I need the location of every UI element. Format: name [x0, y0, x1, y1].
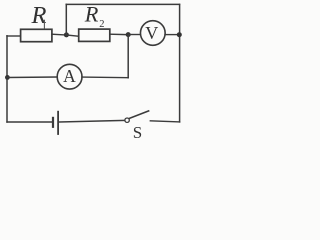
svg-text:2: 2 — [99, 19, 104, 30]
node left (ammeter branch) — [5, 75, 10, 80]
wire junction to R2 — [66, 35, 78, 36]
svg-text:R: R — [84, 2, 99, 27]
wire left node to ammeter — [7, 76, 57, 79]
battery negative plate (short) — [52, 118, 54, 127]
node B (R2 - voltmeter) — [126, 32, 131, 37]
wire bottom left to battery — [7, 121, 52, 123]
resistor R2 — [79, 29, 110, 41]
switch pivot — [125, 118, 129, 122]
wire switch to right — [150, 121, 179, 122]
wire ammeter to corner — [82, 76, 128, 79]
wire junction up to top — [65, 4, 67, 35]
wire top horizontal — [66, 3, 179, 5]
wire left to R1 — [7, 35, 21, 37]
wire corner up to node B — [127, 36, 129, 78]
svg-text:S: S — [133, 123, 142, 142]
battery positive plate (long) — [57, 112, 59, 134]
wire battery to switch — [59, 120, 125, 122]
node right — [177, 32, 182, 37]
resistor R1 — [21, 29, 52, 41]
node junction R1-R2 — [64, 32, 69, 37]
wire R2 to node B — [110, 33, 126, 35]
wire node B to voltmeter — [128, 34, 140, 36]
switch blade — [129, 111, 148, 119]
wire R1 to junction — [52, 33, 64, 36]
wire left vertical — [6, 36, 8, 122]
svg-text:V: V — [145, 23, 158, 43]
ammeter U-A — [57, 64, 82, 89]
voltmeter U-V — [140, 21, 165, 46]
wire voltmeter to right node — [165, 34, 177, 36]
wire right vertical — [179, 4, 181, 122]
svg-text:A: A — [63, 66, 76, 86]
